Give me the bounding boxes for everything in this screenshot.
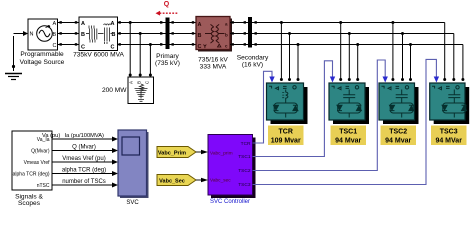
- ground: [5, 36, 22, 80]
- label TSC3 94 MVar: [431, 126, 467, 146]
- signal wire Va Ia: [42, 133, 118, 142]
- wire line block to bus B1 phase C: [118, 43, 166, 45]
- svg-text:Vabc_sec: Vabc_sec: [210, 177, 231, 183]
- svg-text:735kV 6000 MVA: 735kV 6000 MVA: [73, 52, 124, 59]
- svg-text:Vabc_Sec: Vabc_Sec: [159, 179, 185, 185]
- tag Vabc_Sec: [157, 175, 208, 186]
- svg-text:109 Mvar: 109 Mvar: [271, 138, 301, 145]
- TCR phase drops: [280, 21, 300, 81]
- tag Vabc_Prim: [157, 147, 208, 158]
- block TSC1: [329, 83, 369, 124]
- wire line block to bus B1 phase A: [118, 21, 166, 23]
- svg-text:(735 kV): (735 kV): [155, 60, 180, 67]
- svg-text:TCR: TCR: [241, 141, 251, 147]
- svg-text:TSC3: TSC3: [440, 129, 458, 136]
- signal wire alpha TCR: [52, 168, 118, 177]
- svg-text:200 MW: 200 MW: [102, 87, 127, 94]
- signal wire Q: [52, 145, 118, 154]
- wire bus B2 phase B rail: [252, 32, 454, 80]
- icon RL group 1: [86, 26, 101, 43]
- wire bus B2 phase A rail: [252, 21, 445, 80]
- TSC3 port dots: [443, 78, 464, 81]
- svg-text:alpha TCR (deg): alpha TCR (deg): [62, 168, 106, 174]
- subsystem Signals & Scopes: [12, 131, 52, 190]
- icon RL group 2: [101, 24, 114, 44]
- bus B2 secondary bar: [248, 17, 252, 48]
- winding icon: [205, 24, 225, 43]
- svg-text:B: B: [53, 32, 57, 38]
- load block 200 MW: [128, 77, 154, 104]
- svg-text:Programmable: Programmable: [20, 51, 64, 58]
- svg-text:TSC3: TSC3: [238, 182, 251, 188]
- svg-text:A: A: [129, 81, 134, 84]
- label Secondary (16 kV): [237, 55, 269, 69]
- svg-text:A: A: [111, 21, 115, 27]
- node tap B to load: [139, 32, 142, 35]
- label Signals & Scopes: [15, 194, 43, 208]
- svg-text:B: B: [137, 81, 142, 84]
- wire bus B1 to transformer phase C: [170, 43, 197, 45]
- svg-text:735/16 kV: 735/16 kV: [198, 57, 228, 64]
- signal wire number of TSCs: [52, 179, 118, 188]
- wire source B to line block: [58, 32, 80, 34]
- svg-text:A: A: [53, 21, 57, 27]
- wire transformer to bus B2 phase B: [230, 32, 248, 34]
- wire source C to line block: [58, 43, 80, 45]
- control wire TCR: [253, 71, 275, 143]
- control wire TSC2: [253, 60, 388, 171]
- label 735/16 kV 333 MVA: [198, 57, 228, 71]
- wire transformer to bus B2 phase A: [230, 21, 248, 23]
- svg-text:TSC1: TSC1: [238, 154, 251, 160]
- svg-text:Ia (pu/100MVA): Ia (pu/100MVA): [65, 133, 105, 139]
- svg-text:b: b: [225, 33, 228, 38]
- wire tap C down to load: [149, 45, 152, 77]
- node tap C to load: [149, 43, 152, 46]
- control wire TSC3: [253, 59, 440, 184]
- wire source A to line block: [58, 21, 80, 23]
- svg-text:C: C: [198, 44, 202, 50]
- svg-text:C: C: [53, 43, 57, 49]
- svg-text:C: C: [81, 44, 85, 50]
- TSC1 phase drops: [339, 21, 359, 81]
- wire bus B1 to transformer phase A: [170, 21, 197, 23]
- wire transformer to bus B2 phase C: [230, 43, 248, 45]
- svg-text:94 MVar: 94 MVar: [435, 138, 462, 145]
- svg-text:Q (Mvar): Q (Mvar): [72, 145, 96, 151]
- svg-text:Vmeas Vref (pu): Vmeas Vref (pu): [62, 156, 105, 162]
- svg-text:B: B: [198, 33, 202, 39]
- impedance block 735kV 6000 MVA: [79, 17, 118, 51]
- voltage source U1 Programmable Voltage Source: [28, 19, 58, 50]
- svg-text:Voltage Source: Voltage Source: [20, 59, 65, 66]
- node tap A to load: [129, 21, 132, 24]
- wire bus B2 phase C rail: [252, 43, 463, 80]
- control wire TSC1: [253, 61, 336, 157]
- wire tap A down to load: [129, 23, 132, 77]
- TSC2 phase drops: [391, 21, 412, 81]
- bus B1 primary bar: [166, 18, 170, 50]
- wire tap B down to load: [139, 34, 142, 77]
- svg-text:Vmeas Vref: Vmeas Vref: [24, 160, 51, 166]
- block SVC: [118, 130, 149, 198]
- svg-text:N: N: [30, 32, 34, 38]
- block TCR: [267, 83, 308, 124]
- wire line block to bus B1 phase B: [118, 32, 166, 34]
- wire ground to N input: [14, 31, 29, 36]
- svg-text:TSC2: TSC2: [238, 168, 251, 174]
- svg-text:nTSC: nTSC: [37, 183, 50, 189]
- signal wire Vmeas Vref: [52, 156, 118, 165]
- svg-text:Q(Mvar): Q(Mvar): [31, 149, 50, 155]
- controller SVC Controller: [208, 135, 256, 199]
- svg-text:SVC Controller: SVC Controller: [210, 199, 250, 205]
- label Programmable Voltage Source: [20, 51, 65, 66]
- block TSC3: [430, 83, 470, 124]
- svg-text:B: B: [81, 32, 85, 38]
- svg-text:Vabc_Prim: Vabc_Prim: [158, 151, 186, 157]
- svg-text:A: A: [81, 21, 85, 27]
- svg-text:number of TSCs: number of TSCs: [62, 179, 106, 185]
- svg-text:B: B: [112, 32, 116, 38]
- svg-text:SVC: SVC: [126, 200, 139, 206]
- svg-text:C: C: [111, 44, 115, 50]
- wire bus B1 to transformer phase B: [170, 32, 197, 34]
- winding config marks: [204, 45, 207, 49]
- svg-text:Va (pu): Va (pu): [42, 133, 60, 139]
- svg-text:333 MVA: 333 MVA: [200, 64, 227, 71]
- svg-text:Q: Q: [164, 1, 170, 8]
- svg-text:TSC1: TSC1: [339, 129, 357, 136]
- block TSC2: [379, 83, 419, 124]
- svg-text:TCR: TCR: [279, 129, 293, 136]
- svg-text:A: A: [198, 22, 202, 28]
- svg-text:94 Mvar: 94 Mvar: [335, 138, 361, 145]
- svg-text:(16 kV): (16 kV): [242, 61, 263, 68]
- label TSC1 94 Mvar: [331, 126, 367, 146]
- label TCR 109 Mvar: [268, 126, 304, 146]
- label TSC2 94 Mvar: [381, 126, 417, 146]
- transformer T1 735/16 kV 333 MVA: [196, 17, 232, 52]
- label Primary (735 kV): [155, 53, 180, 67]
- svg-text:TSC2: TSC2: [389, 129, 407, 136]
- svg-text:alpha TCR (deg): alpha TCR (deg): [13, 172, 50, 178]
- annotation Q reactive power: [156, 1, 179, 15]
- svg-text:Scopes: Scopes: [18, 200, 41, 207]
- svg-text:94 Mvar: 94 Mvar: [385, 138, 411, 145]
- svg-text:Vabc_prim: Vabc_prim: [210, 150, 233, 156]
